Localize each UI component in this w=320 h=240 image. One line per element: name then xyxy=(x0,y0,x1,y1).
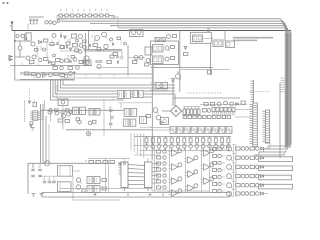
diode D60 xyxy=(69,48,72,51)
text labels row xyxy=(85,160,101,162)
resistor Rx6 xyxy=(117,37,121,40)
wire h y80 xyxy=(15,79,75,81)
relay module MB xyxy=(89,108,100,115)
resistor chain RN1 xyxy=(57,10,111,18)
transistor Q27 xyxy=(69,111,72,114)
capacitor C17b xyxy=(38,163,42,170)
module E2c xyxy=(226,41,235,48)
wire v x73 xyxy=(73,177,120,201)
diode D5 xyxy=(184,47,187,50)
wire bus mid line 1 xyxy=(63,80,175,85)
wire v x46 xyxy=(45,116,47,163)
resistor R36 xyxy=(146,115,150,118)
resistor R34 xyxy=(58,119,62,122)
diode D2c xyxy=(28,101,30,103)
transistor Q18 xyxy=(134,56,138,60)
capacitor C21 elec xyxy=(52,181,56,183)
LED Dg3 xyxy=(163,168,166,171)
wire U8 bottom xyxy=(125,188,149,192)
wire bus mid line 2 xyxy=(60,80,175,88)
op-amp U203r1 xyxy=(201,163,214,170)
relay unit row xyxy=(170,127,232,134)
node circled plus xyxy=(86,131,90,135)
op-amp U187r2 xyxy=(185,184,198,191)
wire thick y50 xyxy=(84,50,122,51)
crystal X1 xyxy=(155,38,159,42)
wire v x104 xyxy=(103,100,105,136)
wire grid verticals3 xyxy=(210,146,227,192)
capacitor C10 plus xyxy=(207,29,210,33)
wire bus top line 2 xyxy=(62,21,286,147)
wire dashed link xyxy=(29,88,31,102)
wire v x1085 xyxy=(108,160,110,193)
transistor Q19 xyxy=(167,35,171,39)
capacitor C9 xyxy=(117,61,118,64)
wire stub x121 xyxy=(120,40,122,45)
transistor Q17 xyxy=(137,31,141,35)
wire v x70 xyxy=(69,38,71,45)
module E1a xyxy=(153,45,164,53)
wire v x43 xyxy=(42,104,44,163)
transistor Q41 xyxy=(82,189,86,193)
resistor R3a xyxy=(72,34,77,38)
capacitor C1 xyxy=(29,19,32,24)
connector J3 body xyxy=(266,110,270,143)
wire h y163 xyxy=(28,162,115,164)
transistor Q11 xyxy=(64,75,68,79)
box br row5 xyxy=(259,184,293,189)
wire band step 2 xyxy=(264,147,288,149)
box osc outline xyxy=(130,30,144,37)
transistor Q16 xyxy=(132,31,136,35)
diode D7 xyxy=(30,125,32,127)
resistor R23 xyxy=(184,53,188,56)
wire stub x68 xyxy=(67,55,69,58)
wire h y695 xyxy=(180,69,230,71)
wire stub x92b xyxy=(91,35,93,39)
resistor Rx7 xyxy=(97,48,101,51)
transistor Q36 xyxy=(156,115,161,120)
resistor R19 xyxy=(173,35,177,38)
resistor R7 xyxy=(68,67,72,70)
relay module ME xyxy=(139,116,146,123)
transistor Q22 xyxy=(165,57,169,61)
wire v x50 xyxy=(50,112,52,122)
transistor Q3 xyxy=(53,21,56,24)
resistor row A xyxy=(212,108,235,115)
resistor Rx3 xyxy=(83,40,87,43)
diode D6 xyxy=(172,79,175,82)
diode D8 xyxy=(160,121,163,124)
connector J2 pins xyxy=(250,105,253,144)
wire band step 3 xyxy=(259,150,286,152)
wire v x47 xyxy=(46,42,48,57)
LED-resistor comb xyxy=(145,137,231,151)
connector J2 upper line xyxy=(253,80,255,103)
connector J1 body xyxy=(33,111,38,121)
transistor Q7d xyxy=(60,59,64,63)
wire h y725 xyxy=(20,72,75,74)
transistor Q8 xyxy=(60,66,64,70)
wire step drop 4 xyxy=(254,155,256,158)
text note line2 xyxy=(233,40,257,41)
wire v x121 xyxy=(120,103,122,108)
text pin labels mid xyxy=(187,92,222,94)
wire bus mid drop xyxy=(174,94,176,106)
capacitor Cx2 xyxy=(89,44,90,47)
lamp DS2 xyxy=(84,60,91,66)
module E1b xyxy=(153,56,164,64)
node band tick2 xyxy=(149,193,152,196)
relay module MU1 xyxy=(118,91,131,99)
tick t1 xyxy=(22,63,38,66)
wire step drop 2 xyxy=(263,149,265,152)
wire h y1298 xyxy=(66,129,152,131)
tick r60 xyxy=(52,39,68,43)
resistor Rg6 xyxy=(157,186,161,189)
resistor Rg5 xyxy=(157,180,161,183)
resistor R62 xyxy=(75,49,79,52)
wire bus top line 1 xyxy=(57,19,285,148)
wire h y674 xyxy=(151,66,214,68)
resistor R42 xyxy=(102,179,106,182)
wire U8 feed verticals xyxy=(131,134,144,159)
wire v x2105 xyxy=(210,43,212,75)
relay module MA xyxy=(73,107,86,114)
lamp DS1 xyxy=(58,99,68,106)
wire bus top line 3 xyxy=(90,24,288,146)
resistor R33a xyxy=(33,100,37,107)
transistor Q30 xyxy=(30,121,33,124)
capacitor C14 elec xyxy=(109,123,112,125)
wire h y98 xyxy=(173,97,240,99)
transistor Q18b xyxy=(139,56,143,60)
capacitor C4 xyxy=(60,32,61,38)
unit right col 5 xyxy=(213,182,226,185)
transistor Qx7 xyxy=(124,42,127,45)
capacitor C5b xyxy=(70,60,71,63)
wire v x173 xyxy=(172,81,174,106)
resistor R37 xyxy=(203,109,211,113)
wire rn2 top xyxy=(183,106,200,108)
wire bus top line 4 xyxy=(110,26,289,145)
transistor Q51 xyxy=(224,101,228,105)
ground sym 1 xyxy=(32,194,36,197)
capacitor C18 xyxy=(31,175,34,176)
capacitor C8 xyxy=(95,61,102,62)
resistor R22 xyxy=(171,57,175,60)
node marker xyxy=(3,2,4,3)
relay module MC xyxy=(124,108,137,116)
diode D9 xyxy=(236,103,239,106)
resistor R8b xyxy=(32,73,36,76)
wire bus mid line 4 xyxy=(55,80,175,94)
wire bus mid line 5 xyxy=(53,80,152,97)
wire h y74 xyxy=(20,73,153,75)
transistor Qx6 xyxy=(110,38,113,41)
node band plus xyxy=(94,193,97,196)
unit right col 1 xyxy=(213,154,226,157)
transistor Q33 xyxy=(62,114,66,118)
resistor R60 xyxy=(50,43,54,46)
wire v x1107 xyxy=(110,106,112,129)
node A input terminal xyxy=(10,22,13,31)
wire v x1798 xyxy=(179,31,181,93)
node marker xyxy=(7,2,8,3)
resistor R43 xyxy=(102,187,106,190)
wire stub x103 xyxy=(102,49,104,52)
wire v x85 xyxy=(85,33,87,66)
wire cap stubs xyxy=(45,176,55,180)
module E2b xyxy=(213,40,223,47)
capacitor C24 xyxy=(124,162,125,165)
connector J1 pins xyxy=(30,112,33,120)
resistor Rg3 xyxy=(157,168,161,171)
resistor R2 xyxy=(44,39,48,42)
op-amp U187r0 xyxy=(185,156,198,163)
wire bottom band 2 xyxy=(42,196,230,198)
transistor Q14 xyxy=(94,36,99,42)
transistor Qx4 xyxy=(53,54,56,57)
diode D2b xyxy=(49,61,52,64)
ground sym J1 xyxy=(31,128,35,131)
capacitor C13 elec xyxy=(110,117,113,119)
LED Dg1 xyxy=(163,156,166,159)
transistor Q50 xyxy=(217,102,221,106)
wire h y1045 xyxy=(200,104,247,106)
opto row 5 xyxy=(227,181,264,188)
wire cap group top xyxy=(29,16,44,18)
node left arrows xyxy=(9,56,12,61)
wire U8 top xyxy=(125,158,149,162)
wire main top rail xyxy=(12,30,291,32)
box IC right xyxy=(145,47,152,55)
capacitor Cx1 xyxy=(16,35,19,38)
resistor R29 xyxy=(66,109,70,112)
wire bottom band 1 xyxy=(42,192,230,194)
opto row 2 xyxy=(227,154,264,161)
wire h y176 xyxy=(40,175,58,177)
transistor Q3b xyxy=(57,20,60,23)
wire grid h y191 xyxy=(152,190,210,192)
wire grid verticals xyxy=(152,146,155,191)
resistor R26 xyxy=(208,70,212,74)
resistor Rg0 xyxy=(157,150,161,153)
capacitor C19 elec xyxy=(43,179,47,183)
capacitor C12 elec xyxy=(109,107,112,111)
wire bus mid line 6 xyxy=(51,80,125,100)
relay module MD xyxy=(123,119,135,126)
wire h y575 xyxy=(128,57,145,59)
transistor Q18c xyxy=(146,59,150,63)
wire grid verticals2 xyxy=(170,146,202,192)
resistor R44 xyxy=(89,161,93,164)
transistor Q28 xyxy=(78,120,82,124)
resistor array RN2 xyxy=(183,107,200,118)
ground sym 2 xyxy=(40,194,44,196)
wire comb top xyxy=(134,136,231,138)
wire bus step xyxy=(111,17,118,28)
IC U8 body xyxy=(121,162,128,188)
resistor Rg2 xyxy=(157,162,161,165)
transistor Q7c xyxy=(38,58,42,62)
LED Dg4 xyxy=(163,174,166,177)
transistor Q11b xyxy=(69,72,73,76)
wire br row6 stub xyxy=(264,193,269,195)
wire step drop 1 xyxy=(267,146,269,149)
resistor R4 xyxy=(60,46,64,49)
resistor R8 xyxy=(25,72,29,75)
diode D2 xyxy=(64,36,67,39)
resistor R51 xyxy=(211,103,215,106)
transistor Q31 xyxy=(48,110,52,114)
transistor Qx3 xyxy=(76,39,79,42)
text pin labels right xyxy=(250,91,270,93)
module E2a xyxy=(193,35,203,42)
transistor Q6b xyxy=(79,35,83,39)
wire h y82 xyxy=(151,81,157,83)
resistor Rg1 xyxy=(157,156,161,159)
transistor Q61 xyxy=(78,50,82,54)
connector J2 body xyxy=(253,103,257,147)
wire bus top line 5 xyxy=(118,28,290,144)
resistor Rx1 xyxy=(21,35,25,38)
transistor Q7b xyxy=(32,55,36,59)
wire caps drop xyxy=(28,24,37,31)
capacitor C5a xyxy=(66,46,67,49)
wire h y188.5 xyxy=(60,188,152,190)
wire k1 right xyxy=(73,170,81,172)
transistor Q6d xyxy=(83,46,87,50)
wire h y78 xyxy=(60,77,152,79)
op-amp U171r0 xyxy=(169,149,182,156)
capacitor C3 xyxy=(36,19,39,24)
LED Dg6 xyxy=(163,186,166,189)
resistor Rx4 xyxy=(52,62,56,65)
wire left drop xyxy=(14,31,16,81)
transistor Q10 xyxy=(49,73,53,77)
wire v x1055 xyxy=(105,158,107,193)
wire v x28 xyxy=(27,163,29,194)
fuse F1 xyxy=(44,161,49,166)
resistor R45 xyxy=(96,161,100,164)
box br row3 xyxy=(259,166,293,171)
transistor Q15 xyxy=(102,32,107,38)
wire v x225 xyxy=(224,31,226,42)
transistor Q26 xyxy=(61,110,65,125)
wire stub x41 xyxy=(40,46,42,50)
wire band ticks xyxy=(281,78,285,92)
resistor Rx5 xyxy=(71,56,75,59)
transistor Qx1 xyxy=(24,37,27,40)
box E2 outline xyxy=(190,32,211,43)
opto row 3 xyxy=(227,163,264,170)
resistor R5b xyxy=(44,58,48,61)
wire v x1535 xyxy=(153,65,155,93)
capacitor C2 xyxy=(32,19,35,24)
unit right col 4 xyxy=(213,175,226,178)
resistor Rx2 xyxy=(35,49,39,52)
transistor Q32 xyxy=(55,111,59,115)
wire band left line xyxy=(279,83,281,158)
capacitor C61 xyxy=(117,56,123,60)
transistor Q9 xyxy=(37,74,41,78)
transistor Q35 xyxy=(153,108,158,114)
wire bridge left xyxy=(162,110,171,112)
capacitor C18b xyxy=(38,175,41,176)
transistor Q17b xyxy=(104,44,108,48)
transistor Q29 xyxy=(88,121,92,125)
connector J1 pins right xyxy=(38,112,40,120)
wire h y445 xyxy=(48,44,60,46)
wire band step 1 xyxy=(268,144,290,146)
wire v x128 xyxy=(127,45,129,74)
wire mid h y655 xyxy=(10,65,92,67)
wire U9 right fan xyxy=(152,163,159,183)
resistor R28 xyxy=(55,109,59,112)
wire v x122 xyxy=(121,51,123,58)
transistor Q6c xyxy=(79,44,83,48)
resistor R5e xyxy=(79,61,83,64)
wire bus mid line 3 xyxy=(58,80,175,91)
transistor Q39 xyxy=(76,178,81,184)
wire stub x76 xyxy=(75,33,77,37)
op-amp U171r2 xyxy=(169,177,182,184)
resistor R35 xyxy=(65,120,69,123)
resistor R6 xyxy=(53,67,57,70)
opto U7 xyxy=(87,186,100,193)
resistor R18 xyxy=(145,63,149,66)
relay K2 xyxy=(58,182,72,192)
lamp DS3 xyxy=(156,83,168,89)
opto row 1 xyxy=(227,145,264,152)
resistor R12 xyxy=(93,44,97,47)
transistor Q62 xyxy=(84,56,90,63)
wire v x1523 xyxy=(151,65,153,161)
op-amp U171r1 xyxy=(169,163,182,170)
resistor R5a xyxy=(30,61,34,64)
resistor R47 xyxy=(110,161,114,164)
wire h y90 xyxy=(151,89,168,91)
transistor Qx5 xyxy=(83,60,86,63)
wire step drop 3 xyxy=(258,152,260,155)
relay module MU2 xyxy=(133,91,143,98)
resistor R5c xyxy=(56,59,60,62)
wire h y158.5 xyxy=(88,158,130,160)
IC U8 pins left xyxy=(119,164,122,175)
opto module M5 xyxy=(161,118,169,125)
op-amp U171r3 xyxy=(169,189,182,196)
wire grid feed xyxy=(134,154,160,156)
wire br row1 up xyxy=(264,143,271,149)
capacitor C60 xyxy=(57,42,58,45)
wire U8-U9 xyxy=(128,165,145,185)
wire chain drop2 xyxy=(57,16,62,22)
wire h1 xyxy=(15,40,26,42)
wire bridge right xyxy=(182,110,184,112)
text note line1 xyxy=(233,37,273,38)
resistor R9 xyxy=(54,73,58,76)
resistor R10 xyxy=(60,74,64,77)
transistor Q2 xyxy=(49,21,52,24)
text ticks y77 xyxy=(33,77,45,79)
resistor R31 xyxy=(76,118,80,121)
wire h y1272 xyxy=(140,126,152,128)
resistor R21 xyxy=(171,46,175,49)
resistor R52 xyxy=(241,101,245,104)
op-amp U1 xyxy=(43,72,47,76)
relay K1 xyxy=(58,166,73,177)
